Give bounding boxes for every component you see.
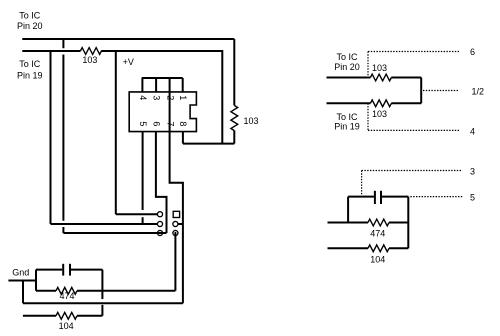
resistor R 103 zigzag (right bottom) [370,100,391,107]
svg-text:8: 8 [178,121,188,126]
svg-text:6: 6 [152,121,162,126]
svg-text:6: 6 [470,47,475,57]
svg-text:To IC: To IC [336,52,358,62]
wire pin 1 stub [182,78,184,92]
resistor R 103 (horizontal on Pin19 bus) [80,48,101,55]
wire pin 8 down to 103 resistor bottom [183,132,234,144]
resistor R 104 leads [23,315,103,317]
svg-text:4: 4 [470,126,475,136]
wire 104 branch (right) [328,247,409,249]
wire dot-terminal down and left to RC pair [102,233,175,291]
svg-text:103: 103 [372,63,387,73]
svg-text:1: 1 [178,95,188,100]
node square pad [173,211,179,217]
wire parallel box right edge down to 104 line (break at gnd line) [101,270,103,316]
svg-text:4: 4 [138,95,148,100]
svg-text:Pin 19: Pin 19 [17,70,43,80]
wire dotted to 5 [410,196,462,198]
wire right box left edge [347,197,349,223]
wire dotted to 4 [368,129,459,131]
svg-text:474: 474 [60,291,75,301]
wire pin2/pin7 through line down to gnd run [170,78,183,303]
wire Pin20 bus top [22,38,234,40]
capacitor C2 right plate [380,191,382,204]
wire vertical +V rail to circle1 line [115,51,117,214]
wire right wire2 (Pin 19) [327,102,422,104]
svg-text:To IC: To IC [19,11,41,21]
svg-text:104: 104 [370,254,385,264]
wire dotted vertical wire2-to-4 [367,103,369,130]
wire dotted to 6 [368,51,459,53]
resistor R 104 zigzag (right) [368,245,389,252]
wire 474 branch (right) [328,222,409,224]
wire dotted to 1/2 [423,90,459,92]
svg-text:To IC: To IC [19,59,41,69]
wire vertical Pin20 to circle3 line (break at crossings) [62,39,64,233]
svg-text:1/2: 1/2 [472,86,485,96]
wire right box right edge [407,197,409,249]
svg-text:104: 104 [59,321,74,331]
wire dotted vertical 3-to-cap [361,171,363,197]
wire right wire1 (Pin 20) [327,77,422,79]
node terminal circle 3 [157,230,162,235]
resistor R 103 (vertical, right of IC) leads [233,39,235,144]
wire pin 3 stub [155,78,157,92]
resistor R 474 zigzag (right) [368,219,389,226]
node terminal circle right-middle with stub [178,223,183,225]
resistor R 103 vertical zigzag [231,105,238,130]
wire pin 6 down jog to circle3 line [156,132,167,233]
node terminal circle with center dot [173,230,178,235]
wire Gnd down and right to pin7 line [23,281,183,304]
capacitor C1 right plate [69,264,71,276]
wire cap branch (right) [348,196,408,198]
wire cap branch leads [36,269,102,271]
wire circle2 line [51,223,158,225]
svg-text:5: 5 [470,193,475,203]
resistor R 103 zigzag (right top) [370,74,391,81]
wire pin 5 down to circle2 line (break at circle1 line) [142,132,144,224]
resistor R 474 zigzag [56,287,77,294]
node terminal circle 1 [157,212,162,217]
capacitor C1 left plate [62,264,64,276]
IC U1 body (8-pin device with notch) [129,92,196,132]
svg-text:5: 5 [138,121,148,126]
svg-text:Pin 20: Pin 20 [334,62,360,72]
wire dotted vertical 6-to-wire1 [367,52,369,78]
svg-text:To IC: To IC [336,112,358,122]
svg-text:3: 3 [152,95,162,100]
svg-text:3: 3 [470,166,475,176]
wire Gnd stub [8,280,36,282]
wire bus above IC pins 4-1 [142,77,183,79]
svg-text:+V: +V [123,57,134,67]
wire circle3 line [63,232,166,234]
resistor R 474 leads [36,290,102,292]
capacitor C2 left plate [374,191,376,204]
svg-text:Pin 20: Pin 20 [17,21,43,31]
wire joining wire1 and wire2 right ends [420,78,422,104]
wire pin 4 stub [141,78,143,92]
resistor R 104 zigzag [56,312,77,319]
svg-text:103: 103 [372,109,387,119]
svg-text:103: 103 [82,55,97,65]
svg-text:103: 103 [244,116,259,126]
node terminal circle 2 [157,221,162,226]
wire Pin19 bus with right-end drop to pin8 junction [22,51,222,144]
wire vertical Pin19 to circle2 line [50,51,52,224]
wire circle1 line [116,213,158,215]
svg-text:Pin 19: Pin 19 [334,122,360,132]
wire dotted to 3 [362,170,463,172]
svg-text:Gnd: Gnd [12,267,29,277]
svg-text:474: 474 [370,228,385,238]
wire parallel box left edge [35,270,37,291]
